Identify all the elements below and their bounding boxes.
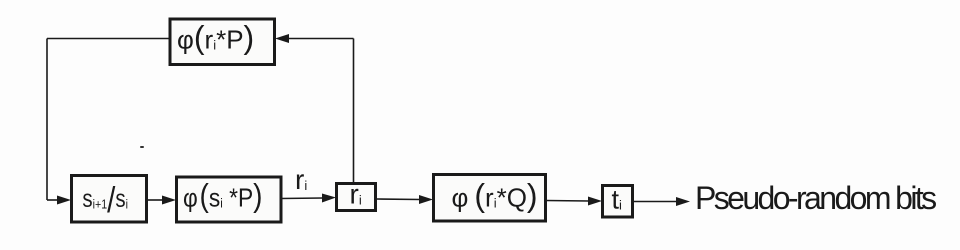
wire into state box with arrowhead [47, 196, 71, 205]
svg-text:φ(ri*P): φ(ri*P) [177, 20, 254, 56]
output label Pseudo-random bits [695, 180, 936, 216]
svg-text:φ(si *P): φ(si *P) [183, 179, 263, 214]
svg-text:Pseudo-random bits: Pseudo-random bits [695, 180, 936, 216]
box U3 phi(si*P) [177, 177, 282, 222]
wire U3 to R with arrowhead [281, 194, 336, 203]
wire output to label with arrowhead [633, 197, 690, 206]
box R register ri [337, 179, 376, 211]
node label ri on wire [295, 164, 307, 195]
stray mark speck [140, 146, 144, 148]
wire top rail to U1 with arrowhead [275, 34, 354, 43]
box U2 state update s_{i+1}/s_i [72, 176, 147, 223]
wire R to U4 with arrowhead [376, 195, 433, 204]
wire U4 to T with arrowhead [546, 197, 602, 206]
box T truncate ti [603, 185, 633, 218]
wire left rail vertical down [46, 39, 48, 201]
box U1 phi(ri*P) [170, 19, 275, 65]
wire feedback left: from U1 left edge to left rail [47, 38, 169, 40]
wire U2 to U3 with arrowhead [147, 196, 176, 205]
box U4 phi(ri*Q) [434, 175, 546, 222]
wire feedback up from R to top rail [353, 39, 355, 184]
